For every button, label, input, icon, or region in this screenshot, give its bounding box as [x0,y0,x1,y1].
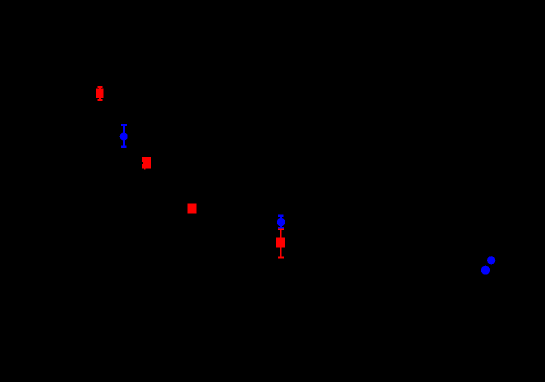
red series point 3 square marker [188,204,197,214]
red series point 2 square marker with small error bar [142,157,151,170]
blue series point 2 error bar [278,215,284,229]
blue series point 4 circle marker [481,266,490,275]
red series point 4 error bar [278,228,284,258]
red series point 1 error bar [97,86,102,101]
blue series point 2 circle marker [277,218,285,226]
red series point 1 square marker [96,89,104,99]
blue series point 3 circle marker [487,256,495,264]
red series point 4 square marker [276,238,285,248]
blue series point 1 circle marker [120,133,128,141]
blue series point 1 error bar [121,124,127,148]
